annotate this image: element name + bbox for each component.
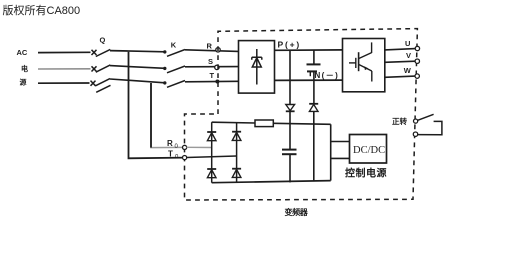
wire L1 from Q to contactor K: [110, 51, 165, 52]
wire output W: [385, 76, 416, 77]
wire vertical P branch (left, to braking diode): [289, 50, 291, 104]
wire L2 from Q to contactor K: [110, 66, 165, 69]
terminal W (open circle): [415, 74, 419, 78]
svg-text:AC: AC: [17, 48, 28, 57]
diode D1 (braking, pointing down): [286, 105, 295, 112]
svg-text:P(+): P(+): [278, 39, 302, 49]
contact 正转 blade: [418, 114, 434, 120]
wire top rail choke to right: [273, 123, 330, 124]
svg-text:DC/DC: DC/DC: [353, 145, 385, 156]
wire R0 into bridge: [187, 146, 212, 148]
wire output V: [385, 61, 416, 62]
wire bottom rail: [212, 181, 331, 183]
svg-text:源: 源: [20, 78, 27, 87]
wire N bus: [275, 79, 343, 81]
contactor K pole 1 (dot + blade): [163, 50, 185, 57]
wire D1 branch down to capacitor C2: [289, 111, 291, 149]
wire phase L2 input: [38, 68, 91, 70]
rectifier U1 thyristor symbol: [252, 49, 262, 85]
contactor K pole 2 (dot + blade): [163, 66, 185, 73]
wire L3 from Q to contactor K: [110, 79, 165, 83]
svg-text:K: K: [171, 40, 177, 49]
wire phase L1 input: [38, 51, 91, 53]
diode D2 (pointing up): [309, 104, 318, 112]
svg-text:控制电源: 控制电源: [345, 167, 387, 180]
inverter U2 IGBT symbol: [349, 42, 372, 81]
breaker Q linkage stroke: [96, 85, 110, 92]
svg-text:T: T: [168, 150, 173, 159]
terminal S (open circle): [215, 65, 219, 69]
wire 正转 loop: [418, 121, 442, 134]
wire vertical drop from L3 to R0: [151, 83, 184, 148]
breaker Q pole 1 (x mark + blade): [92, 49, 111, 56]
svg-text:版权所有CA800: 版权所有CA800: [3, 3, 81, 17]
svg-text:W: W: [404, 66, 412, 75]
breaker Q pole 2 (x mark + blade): [92, 65, 111, 72]
bridge left leg wire: [211, 122, 213, 183]
wire phase L3 input: [38, 82, 90, 84]
wire P bus: [275, 49, 343, 51]
svg-text:电: 电: [21, 64, 28, 73]
svg-text:S: S: [208, 57, 213, 66]
capacitor C2 (filter): [282, 150, 297, 183]
terminal R0 (open circle): [183, 145, 187, 149]
terminal V (open circle): [415, 59, 419, 63]
terminal T (filled dot): [215, 80, 219, 84]
terminal U (open circle): [415, 46, 419, 50]
wire DC/DC lower input: [331, 157, 350, 159]
contactor K pole 3 (dot + blade): [163, 81, 185, 88]
wire DC/DC upper input: [331, 141, 350, 143]
svg-text:N(－): N(－): [315, 71, 340, 80]
contact 正转 terminal lower: [413, 132, 417, 136]
wire output U: [385, 49, 416, 50]
bridge diode D6 (lower right): [232, 169, 241, 178]
svg-text:T: T: [210, 71, 215, 80]
wire R to rectifier: [185, 50, 239, 52]
wire S to rectifier: [185, 66, 239, 68]
bridge diode D5 (lower left): [207, 169, 216, 178]
bridge diode D4 (upper right): [232, 132, 241, 141]
rectifier U1 box: [239, 41, 275, 94]
svg-text:正转: 正转: [392, 116, 407, 126]
inverter U2 box: [343, 39, 385, 92]
breaker Q pole 3 (x mark + blade): [91, 79, 111, 86]
bridge right leg wire: [236, 123, 238, 183]
wire bridge top rail: [212, 121, 255, 124]
wire D2 branch down to bottom rail: [313, 111, 315, 181]
wire vertical drop from L1 to T0: [129, 52, 185, 159]
wire T0 into bridge: [187, 156, 237, 158]
terminal R (open circle): [216, 48, 220, 52]
wire right riser to DC/DC: [330, 124, 332, 180]
svg-text:R: R: [167, 139, 173, 148]
capacitor C1 (DC link): [307, 50, 321, 104]
svg-text:U: U: [405, 39, 410, 48]
bridge diode D3 (upper left): [207, 132, 216, 141]
terminal T0 (open circle): [183, 156, 187, 160]
DC/DC converter box: [350, 135, 387, 164]
svg-text:R: R: [207, 42, 213, 51]
dashed enclosure frequency converter outline: [185, 29, 418, 200]
svg-text:Q: Q: [100, 36, 106, 45]
svg-text:变频器: 变频器: [285, 207, 309, 217]
svg-text:V: V: [406, 51, 411, 60]
contact 正转 terminal upper: [414, 119, 418, 123]
choke L (box): [255, 120, 273, 127]
wire T to rectifier: [185, 80, 239, 83]
